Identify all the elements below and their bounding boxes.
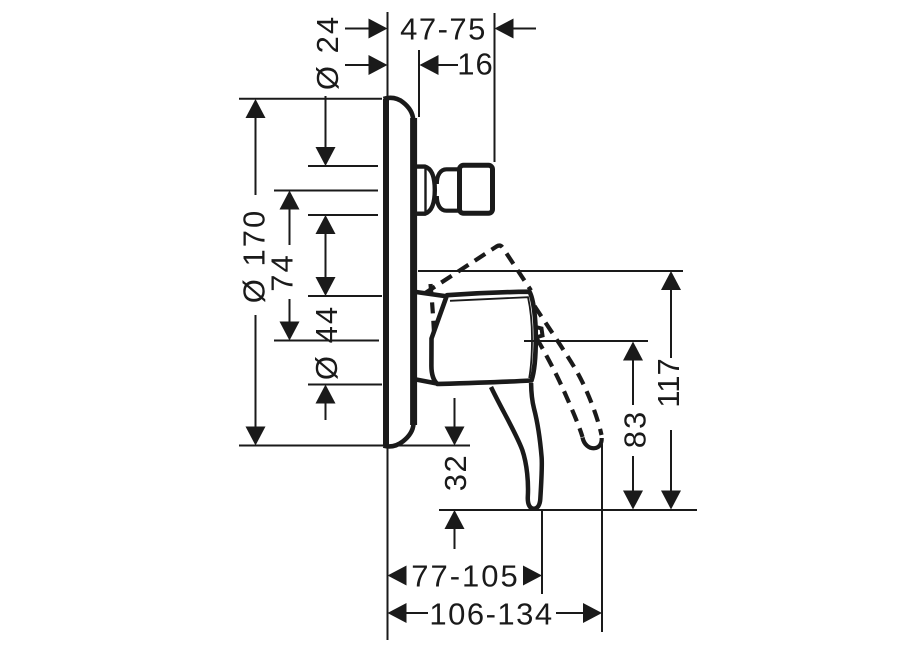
svg-text:32: 32: [438, 454, 473, 491]
svg-text:Ø 44: Ø 44: [309, 305, 344, 380]
knob flange: [417, 167, 435, 214]
dimension 106-134: [388, 597, 603, 632]
dimension 32: [438, 398, 473, 549]
escutcheon plate front face: [410, 118, 417, 425]
wire raised lever tip vertical extension line: [601, 444, 603, 632]
handle rosette top stub: [416, 292, 448, 297]
svg-text:83: 83: [618, 410, 653, 448]
handle rosette bottom stub: [416, 380, 437, 384]
svg-text:Ø 24: Ø 24: [310, 15, 345, 90]
dimension 77-105: [388, 559, 543, 594]
raised lever dashed upper blade edge: [535, 306, 602, 435]
wire plate top extension line: [239, 98, 382, 100]
svg-text:74: 74: [265, 253, 300, 291]
svg-text:106-134: 106-134: [429, 597, 553, 632]
raised lever dashed tip: [583, 438, 602, 449]
escutcheon plate outline: [384, 98, 414, 447]
wire wall-plane extension line: [387, 12, 389, 640]
wire knob-tip extension line: [494, 13, 496, 162]
wire knob bottom extension line: [308, 214, 378, 216]
knob step line: [457, 171, 460, 209]
wire lever axis extension line right: [524, 340, 648, 342]
handle hub inner contour: [450, 297, 532, 378]
svg-text:47-75: 47-75: [400, 12, 487, 47]
dimension 74: [265, 191, 300, 341]
wire plate bottom extension line: [239, 445, 470, 447]
wire lever axis extension line left: [274, 340, 379, 342]
raised lever dashed hub edge: [425, 246, 532, 294]
knob end cap: [460, 165, 493, 213]
wire lever tip vertical extension line: [541, 510, 543, 594]
svg-text:16: 16: [457, 47, 493, 82]
dimension 47-75: [345, 12, 536, 47]
escutcheon plate back edge: [383, 99, 389, 446]
raised lever dashed lower blade edge: [537, 338, 583, 437]
wire raised-lever top extension line: [418, 270, 683, 272]
dimension 117: [651, 271, 686, 510]
wire knob axis extension line: [274, 190, 378, 192]
handle hub outline: [431, 292, 535, 384]
wire knob top extension line: [308, 165, 378, 167]
svg-text:117: 117: [651, 358, 686, 407]
dimension dia 24: [310, 15, 345, 278]
dimension 16: [345, 47, 494, 82]
wire hub bottom extension line: [308, 384, 382, 386]
wire lever tip level line: [439, 509, 697, 511]
wire hub top extension line: [308, 295, 382, 297]
dimension dia 170: [237, 99, 272, 446]
lever handle (down position): [491, 383, 542, 509]
knob neck: [437, 169, 460, 210]
raised lever dashed front edge: [431, 284, 435, 336]
wire plate-front extension line: [418, 50, 420, 117]
dimension dia 44: [309, 277, 344, 420]
svg-text:77-105: 77-105: [411, 559, 520, 594]
knob flange inner line: [424, 168, 426, 212]
handle hub set-screw notch: [536, 327, 543, 338]
dimension 83: [618, 342, 653, 510]
